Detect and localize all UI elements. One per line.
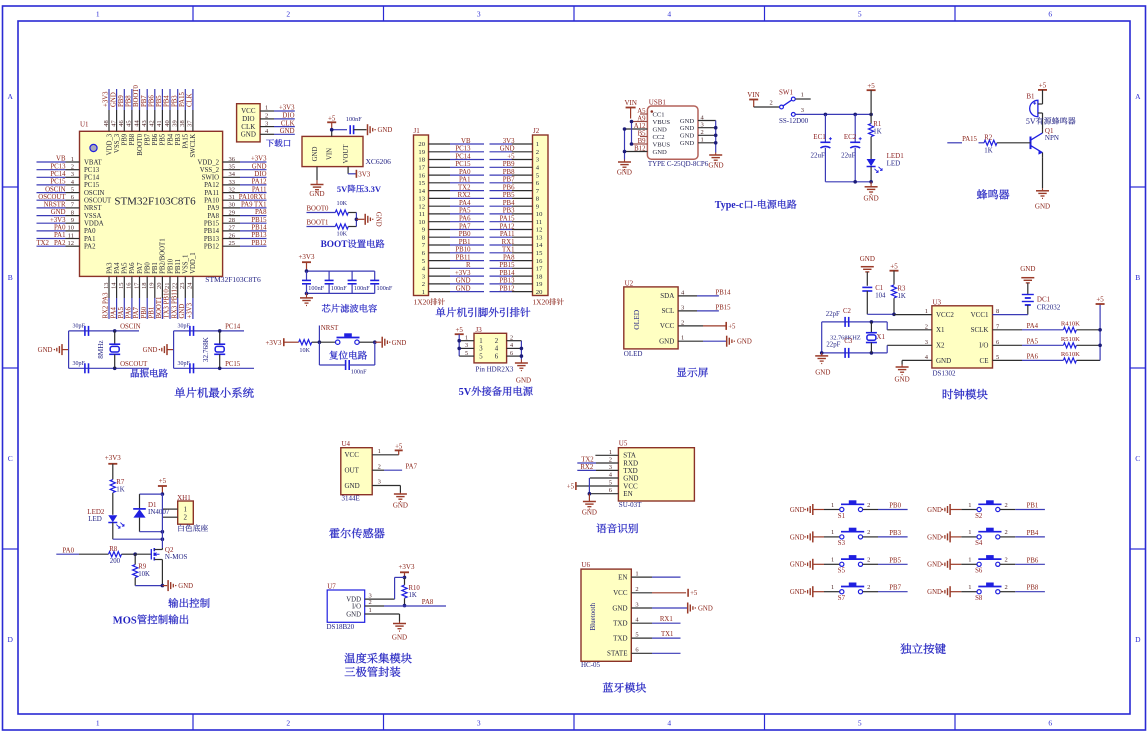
svg-text:STATE: STATE bbox=[607, 650, 627, 658]
svg-text:GND: GND bbox=[895, 375, 910, 383]
svg-text:+3V3: +3V3 bbox=[103, 91, 110, 107]
svg-text:-: - bbox=[754, 200, 757, 211]
svg-text:+5: +5 bbox=[159, 477, 167, 485]
svg-text:1: 1 bbox=[968, 529, 971, 536]
earth at USB1 right bbox=[708, 153, 723, 170]
svg-text:VDD_3: VDD_3 bbox=[106, 133, 113, 155]
svg-text:1: 1 bbox=[536, 141, 539, 148]
svg-text:2: 2 bbox=[422, 281, 425, 288]
svg-text:PA6: PA6 bbox=[126, 306, 133, 318]
svg-text:PB12: PB12 bbox=[251, 240, 267, 247]
svg-text:1K: 1K bbox=[409, 592, 417, 599]
diode D1 IN4007 bbox=[133, 494, 170, 533]
regulator GND pin to earth bbox=[309, 167, 324, 198]
push button S2 to PB1 bbox=[927, 500, 1045, 520]
svg-text:SU-03T: SU-03T bbox=[619, 501, 642, 509]
svg-text:+3V3: +3V3 bbox=[251, 156, 267, 163]
svg-text:PA0: PA0 bbox=[63, 548, 75, 555]
svg-text:Bluetooth: Bluetooth bbox=[589, 602, 597, 630]
svg-text:19: 19 bbox=[536, 281, 543, 288]
svg-text:GND: GND bbox=[612, 604, 627, 612]
svg-text:1K: 1K bbox=[116, 486, 124, 493]
BOOT circuit title bbox=[321, 239, 385, 250]
svg-text:N-MOS: N-MOS bbox=[165, 553, 188, 561]
svg-text:VSS_2: VSS_2 bbox=[200, 167, 220, 174]
svg-text:2: 2 bbox=[1004, 529, 1007, 536]
U5 pin wires bbox=[576, 449, 619, 494]
svg-text:GND: GND bbox=[1035, 203, 1050, 211]
svg-text:NRSTR: NRSTR bbox=[44, 202, 66, 209]
svg-text:DIO: DIO bbox=[254, 171, 266, 178]
power +3V3 at DS18B20 bbox=[398, 563, 415, 579]
temperature module titles bbox=[345, 653, 412, 677]
svg-text:GND: GND bbox=[936, 357, 951, 365]
svg-text:GND: GND bbox=[456, 278, 471, 285]
svg-text:3: 3 bbox=[71, 171, 74, 178]
J3 left pins to +5 bbox=[457, 334, 474, 357]
svg-text:16: 16 bbox=[126, 282, 133, 289]
svg-text:6: 6 bbox=[495, 353, 499, 360]
svg-text:20: 20 bbox=[536, 289, 543, 296]
svg-text:C2: C2 bbox=[843, 308, 852, 315]
svg-text:+3V3: +3V3 bbox=[105, 454, 122, 462]
svg-text:VSS_1: VSS_1 bbox=[183, 255, 190, 274]
svg-text:21: 21 bbox=[164, 283, 171, 290]
svg-text:J1: J1 bbox=[414, 127, 421, 135]
transistor Q1 NPN bbox=[1031, 127, 1059, 157]
svg-text:5: 5 bbox=[858, 719, 862, 728]
svg-text:GND: GND bbox=[927, 534, 942, 541]
svg-text:GND: GND bbox=[38, 347, 53, 354]
svg-text:PA1: PA1 bbox=[54, 232, 65, 239]
svg-text:10: 10 bbox=[68, 225, 75, 232]
svg-text:RX3 PB11: RX3 PB11 bbox=[171, 289, 178, 318]
svg-text:41: 41 bbox=[156, 120, 163, 127]
svg-text:6: 6 bbox=[635, 647, 639, 654]
svg-text:TX3 PB10: TX3 PB10 bbox=[164, 289, 171, 319]
svg-text:LED: LED bbox=[887, 159, 901, 167]
svg-text:GND: GND bbox=[623, 474, 638, 482]
power +5 at J3 bbox=[455, 326, 464, 334]
svg-text:U4: U4 bbox=[342, 440, 351, 448]
svg-text:PA9 TX1: PA9 TX1 bbox=[241, 202, 267, 209]
U1 top net labels bbox=[103, 84, 194, 107]
svg-text:I/O: I/O bbox=[352, 603, 361, 610]
svg-text:GND: GND bbox=[617, 169, 632, 177]
svg-text:100nF: 100nF bbox=[377, 285, 393, 292]
svg-text:X2: X2 bbox=[936, 342, 945, 350]
svg-text:GND: GND bbox=[680, 118, 695, 125]
svg-text:GND: GND bbox=[143, 347, 158, 354]
svg-text:2: 2 bbox=[701, 129, 704, 136]
svg-text:1: 1 bbox=[831, 529, 834, 536]
ground left of crystal bbox=[143, 344, 174, 355]
ground at BOOT circuit bbox=[365, 212, 381, 227]
svg-text:14: 14 bbox=[110, 282, 117, 289]
crystal circuit title bbox=[131, 369, 168, 378]
LED1 bbox=[867, 152, 905, 182]
svg-text:A12: A12 bbox=[634, 123, 646, 130]
svg-text:15: 15 bbox=[118, 283, 125, 290]
capacitor 100nF reset bbox=[319, 342, 374, 375]
svg-text:C1: C1 bbox=[875, 285, 883, 292]
svg-text:10K: 10K bbox=[336, 200, 347, 207]
svg-text:PA4: PA4 bbox=[1027, 323, 1039, 330]
svg-text:PC13: PC13 bbox=[455, 146, 471, 153]
resistor 10K reset bbox=[284, 340, 320, 354]
svg-text:14: 14 bbox=[418, 188, 425, 195]
svg-text:32.768K: 32.768K bbox=[202, 336, 210, 362]
svg-text:STM32F103C8T6: STM32F103C8T6 bbox=[205, 275, 261, 284]
svg-text:LED: LED bbox=[88, 515, 102, 523]
svg-text:36: 36 bbox=[229, 156, 236, 163]
svg-text:30pF: 30pF bbox=[73, 361, 86, 367]
wire switch output rail bbox=[796, 113, 873, 117]
capacitor C1 104 bbox=[862, 285, 894, 314]
svg-text:B: B bbox=[8, 273, 13, 282]
svg-text:VSSA: VSSA bbox=[84, 213, 101, 220]
svg-text:42: 42 bbox=[149, 120, 156, 127]
svg-text:3: 3 bbox=[701, 122, 704, 129]
svg-text:18: 18 bbox=[141, 283, 148, 290]
U6 pin wires and nets bbox=[631, 570, 713, 653]
svg-text:PB13: PB13 bbox=[204, 236, 220, 243]
regulator U8 XC6206 body bbox=[302, 136, 391, 166]
svg-text:1: 1 bbox=[265, 105, 268, 112]
svg-text:+5: +5 bbox=[328, 115, 336, 123]
filter caps bus wires bbox=[305, 269, 375, 295]
ground at MOS source bbox=[135, 580, 193, 591]
svg-text:12: 12 bbox=[68, 240, 75, 247]
svg-text:PB10: PB10 bbox=[455, 247, 471, 254]
svg-text:OSCOUT: OSCOUT bbox=[120, 361, 148, 368]
svg-text:13: 13 bbox=[103, 283, 110, 290]
svg-text:OSCIN: OSCIN bbox=[120, 324, 140, 331]
power +5 at buzzer bbox=[1038, 82, 1047, 105]
net label OSCOUT bbox=[120, 361, 148, 368]
capacitor 30pF top bbox=[178, 324, 194, 336]
svg-text:C: C bbox=[8, 454, 13, 463]
svg-text:XC6206: XC6206 bbox=[366, 157, 392, 166]
svg-text:43: 43 bbox=[141, 120, 148, 127]
svg-text:S7: S7 bbox=[838, 595, 846, 602]
svg-text:1: 1 bbox=[831, 502, 834, 509]
svg-text:2: 2 bbox=[369, 599, 372, 606]
svg-text:PB0: PB0 bbox=[145, 262, 152, 274]
svg-text:BOOT1: BOOT1 bbox=[156, 297, 163, 319]
sensor U4 3144E body bbox=[341, 440, 372, 502]
IC U3 DS1302 body bbox=[932, 298, 993, 377]
svg-text:3: 3 bbox=[477, 719, 481, 728]
svg-text:6: 6 bbox=[510, 350, 513, 357]
svg-text:2: 2 bbox=[286, 719, 290, 728]
svg-text:PA5: PA5 bbox=[118, 306, 125, 318]
svg-text:U3: U3 bbox=[933, 298, 942, 306]
svg-text:100nF: 100nF bbox=[308, 285, 324, 292]
svg-text:3.3V: 3.3V bbox=[364, 184, 382, 194]
svg-text:1: 1 bbox=[96, 719, 100, 728]
svg-text:PB2/BOOT1: PB2/BOOT1 bbox=[160, 238, 167, 274]
push button S1 to PB0 bbox=[790, 500, 908, 520]
svg-text:47: 47 bbox=[110, 120, 117, 127]
svg-text:NPN: NPN bbox=[1045, 134, 1059, 142]
svg-text:+3V3: +3V3 bbox=[455, 270, 471, 277]
svg-text:29: 29 bbox=[229, 209, 236, 216]
svg-text:PB1: PB1 bbox=[1027, 503, 1039, 510]
power VIN at USB bbox=[625, 99, 637, 118]
svg-text:+5: +5 bbox=[690, 590, 698, 597]
svg-text:GND: GND bbox=[178, 583, 193, 590]
svg-text:2: 2 bbox=[1004, 584, 1007, 591]
IC U1 STM32F103C8T6 body bbox=[80, 121, 261, 284]
svg-text:PA5: PA5 bbox=[459, 208, 471, 215]
svg-text:PB14: PB14 bbox=[499, 270, 515, 277]
svg-text:CE: CE bbox=[980, 357, 989, 365]
svg-text:SCL: SCL bbox=[661, 307, 674, 315]
svg-text:HC-05: HC-05 bbox=[581, 661, 601, 669]
svg-text:104: 104 bbox=[875, 293, 886, 300]
power +3V3 at R7 bbox=[105, 454, 122, 479]
reset circuit title bbox=[329, 351, 367, 360]
svg-text:RX1: RX1 bbox=[660, 616, 673, 623]
svg-text:PA1: PA1 bbox=[84, 236, 95, 243]
svg-text:1: 1 bbox=[968, 557, 971, 564]
svg-text:PA12: PA12 bbox=[500, 223, 515, 230]
svg-text:VB: VB bbox=[56, 156, 66, 163]
svg-text:BOOT0: BOOT0 bbox=[133, 84, 140, 107]
svg-text:RX2 PA3: RX2 PA3 bbox=[103, 292, 110, 319]
buzzer title bbox=[977, 189, 1009, 199]
net label TX2 bbox=[581, 456, 594, 463]
svg-text:1X20: 1X20 bbox=[532, 298, 549, 307]
svg-text:BOOT: BOOT bbox=[321, 240, 349, 250]
resistor 10K on BOOT1 bbox=[335, 224, 356, 238]
push button S8 to PB8 bbox=[927, 583, 1045, 603]
power +5 at D1 bbox=[158, 477, 167, 496]
svg-text:VCC: VCC bbox=[660, 322, 675, 330]
svg-text:PA4: PA4 bbox=[114, 262, 121, 274]
U1 left pins 1-12 bbox=[37, 156, 113, 251]
crystal 8MHz bbox=[97, 331, 120, 368]
svg-text:DS1302: DS1302 bbox=[933, 369, 956, 377]
LED2 bbox=[87, 508, 124, 539]
svg-text:B: B bbox=[1135, 273, 1140, 282]
svg-text:1K: 1K bbox=[984, 147, 992, 154]
svg-text:PC15: PC15 bbox=[455, 161, 471, 168]
svg-text:1X20: 1X20 bbox=[414, 298, 431, 307]
connector J1 1X20 header bbox=[414, 127, 445, 307]
svg-text:OLED: OLED bbox=[624, 350, 643, 358]
svg-text:20: 20 bbox=[156, 283, 163, 290]
svg-text:26: 26 bbox=[229, 232, 236, 239]
svg-text:1: 1 bbox=[369, 607, 372, 614]
U4 pin1 to +5 bbox=[372, 444, 403, 455]
download port pins and net labels bbox=[260, 105, 295, 135]
download port title bbox=[266, 139, 290, 147]
svg-text:27: 27 bbox=[229, 225, 236, 232]
svg-text:3: 3 bbox=[378, 479, 381, 486]
svg-text:GND: GND bbox=[680, 133, 695, 140]
push button S7 to PB7 bbox=[790, 583, 908, 603]
svg-text:+3V3: +3V3 bbox=[265, 339, 282, 347]
svg-text:2: 2 bbox=[867, 502, 870, 509]
svg-text:A: A bbox=[1135, 92, 1141, 101]
svg-text:PA4: PA4 bbox=[110, 306, 117, 318]
svg-text:1: 1 bbox=[422, 289, 425, 296]
svg-text:PA6: PA6 bbox=[459, 216, 471, 223]
svg-text:PB3: PB3 bbox=[889, 530, 901, 537]
svg-text:5: 5 bbox=[479, 353, 483, 360]
svg-text:TX2: TX2 bbox=[581, 456, 594, 463]
svg-text:U2: U2 bbox=[625, 279, 634, 287]
svg-text:SDA: SDA bbox=[660, 292, 674, 300]
svg-text:3: 3 bbox=[477, 10, 481, 19]
svg-text:1: 1 bbox=[968, 502, 971, 509]
svg-text:11: 11 bbox=[68, 232, 74, 239]
svg-text:PA0: PA0 bbox=[54, 225, 66, 232]
power +3V3 filter caps bbox=[298, 253, 315, 271]
svg-text:BOOT0: BOOT0 bbox=[137, 133, 144, 156]
svg-text:NRST: NRST bbox=[321, 325, 339, 332]
svg-text:B5: B5 bbox=[638, 130, 647, 137]
regulator VOUT to 3V3 bbox=[348, 167, 371, 179]
svg-text:GND: GND bbox=[582, 508, 597, 516]
U4 pin2 to PA7 bbox=[372, 463, 417, 470]
svg-text:SS-12D00: SS-12D00 bbox=[779, 117, 809, 125]
svg-text:CC2: CC2 bbox=[653, 134, 665, 141]
svg-text:VIN: VIN bbox=[327, 148, 334, 160]
svg-text:PB4: PB4 bbox=[1027, 530, 1039, 537]
svg-text:PB3: PB3 bbox=[503, 208, 515, 215]
clock module title bbox=[943, 389, 988, 400]
svg-text:X1: X1 bbox=[936, 326, 945, 334]
svg-text:18: 18 bbox=[418, 157, 425, 164]
svg-text:3V3: 3V3 bbox=[358, 170, 371, 178]
svg-text:33: 33 bbox=[229, 179, 236, 186]
svg-text:PA4: PA4 bbox=[459, 200, 471, 207]
J2 pin wires and net labels bbox=[490, 138, 533, 293]
svg-text:28: 28 bbox=[229, 217, 236, 224]
net label PA0 and resistor R8 200 bbox=[56, 546, 137, 565]
buttons title bbox=[900, 643, 945, 654]
U7 pin2 I/O wire to PA8 bbox=[365, 599, 446, 606]
svg-text:100nF: 100nF bbox=[354, 285, 370, 292]
voice module title bbox=[597, 523, 638, 533]
svg-text:3: 3 bbox=[265, 120, 268, 127]
svg-text:VBUS: VBUS bbox=[653, 141, 671, 148]
svg-text:PB12: PB12 bbox=[499, 285, 515, 292]
svg-text:TXD: TXD bbox=[613, 635, 627, 643]
svg-text:GND: GND bbox=[680, 125, 695, 132]
svg-text:1: 1 bbox=[183, 506, 187, 514]
svg-text:PA8: PA8 bbox=[255, 209, 267, 216]
svg-text:200: 200 bbox=[110, 558, 121, 565]
capacitor C2 22pF bbox=[826, 308, 852, 327]
svg-text:S1: S1 bbox=[838, 513, 845, 520]
net label BOOT0 bbox=[307, 206, 336, 213]
svg-text:PA8: PA8 bbox=[422, 599, 434, 606]
svg-text:31: 31 bbox=[229, 194, 236, 201]
earth below filter caps bbox=[300, 293, 313, 305]
power +5 and resistor R3 1K bbox=[890, 262, 907, 316]
svg-text:TX2: TX2 bbox=[37, 240, 50, 247]
svg-text:2: 2 bbox=[265, 113, 268, 120]
connector J3 HDR2X3 bbox=[474, 326, 514, 374]
svg-text:16: 16 bbox=[418, 172, 425, 179]
svg-text:VCC2: VCC2 bbox=[936, 311, 954, 319]
svg-text:PB6: PB6 bbox=[152, 133, 159, 145]
push button reset switch bbox=[319, 333, 374, 344]
svg-text:PC15: PC15 bbox=[225, 361, 241, 368]
svg-text:STM32F103C8T6: STM32F103C8T6 bbox=[114, 195, 196, 207]
svg-text:1: 1 bbox=[479, 338, 482, 345]
svg-text:PC14: PC14 bbox=[225, 324, 241, 331]
svg-text:11: 11 bbox=[536, 219, 542, 226]
svg-text:U1: U1 bbox=[80, 121, 89, 129]
svg-text:GND: GND bbox=[698, 606, 713, 613]
svg-text:PA15: PA15 bbox=[179, 92, 186, 107]
display U2 OLED body bbox=[624, 279, 678, 358]
svg-text:RX2: RX2 bbox=[580, 464, 593, 471]
push button S3 to PB3 bbox=[790, 528, 908, 548]
svg-text:+5: +5 bbox=[867, 82, 875, 90]
svg-text:GND: GND bbox=[393, 502, 408, 510]
svg-text:R1: R1 bbox=[873, 121, 881, 128]
svg-text:PB15: PB15 bbox=[499, 262, 515, 269]
svg-text:EC2: EC2 bbox=[844, 133, 857, 141]
svg-text:2: 2 bbox=[1004, 502, 1007, 509]
capacitor 100nF #4 bbox=[370, 271, 393, 293]
svg-text:B1: B1 bbox=[1026, 92, 1035, 100]
svg-text:1: 1 bbox=[96, 10, 100, 19]
svg-text:44: 44 bbox=[133, 120, 140, 127]
ground at reset bbox=[373, 337, 406, 348]
net label OSCIN bbox=[120, 324, 140, 331]
svg-text:GND: GND bbox=[1020, 265, 1035, 273]
svg-text:40: 40 bbox=[164, 120, 171, 127]
svg-text:+5: +5 bbox=[1096, 296, 1104, 304]
svg-text:S6: S6 bbox=[975, 568, 983, 575]
svg-text:23: 23 bbox=[179, 283, 186, 290]
svg-text:PB9: PB9 bbox=[503, 161, 515, 168]
power VIN at switch bbox=[747, 91, 759, 107]
power +5 at regulator bbox=[327, 115, 336, 130]
ground left of crystal bbox=[38, 344, 69, 355]
svg-text:+3V3: +3V3 bbox=[298, 253, 315, 261]
svg-text:PC15: PC15 bbox=[50, 179, 66, 186]
svg-text:15: 15 bbox=[536, 250, 543, 257]
svg-text:GND: GND bbox=[815, 369, 830, 377]
earth below power rail bbox=[864, 182, 879, 203]
svg-text:4: 4 bbox=[667, 10, 671, 19]
svg-text:11: 11 bbox=[419, 211, 425, 218]
svg-text:PB14: PB14 bbox=[715, 289, 731, 296]
wire LED2 to output node bbox=[113, 537, 164, 541]
svg-text:2: 2 bbox=[286, 10, 290, 19]
svg-text:PB11: PB11 bbox=[175, 259, 182, 274]
svg-text:PB5: PB5 bbox=[889, 557, 901, 564]
svg-text:GND: GND bbox=[680, 140, 695, 147]
svg-text:PA12: PA12 bbox=[204, 182, 219, 189]
svg-text:DIO: DIO bbox=[282, 113, 294, 120]
svg-text:+3V3: +3V3 bbox=[50, 217, 66, 224]
svg-text:R610K: R610K bbox=[1061, 351, 1080, 358]
push button S5 to PB5 bbox=[790, 555, 908, 575]
power +5 feed bbox=[867, 82, 876, 115]
svg-text:CC1: CC1 bbox=[653, 111, 665, 118]
svg-text:17: 17 bbox=[133, 282, 140, 289]
svg-text:PB12: PB12 bbox=[204, 244, 220, 251]
